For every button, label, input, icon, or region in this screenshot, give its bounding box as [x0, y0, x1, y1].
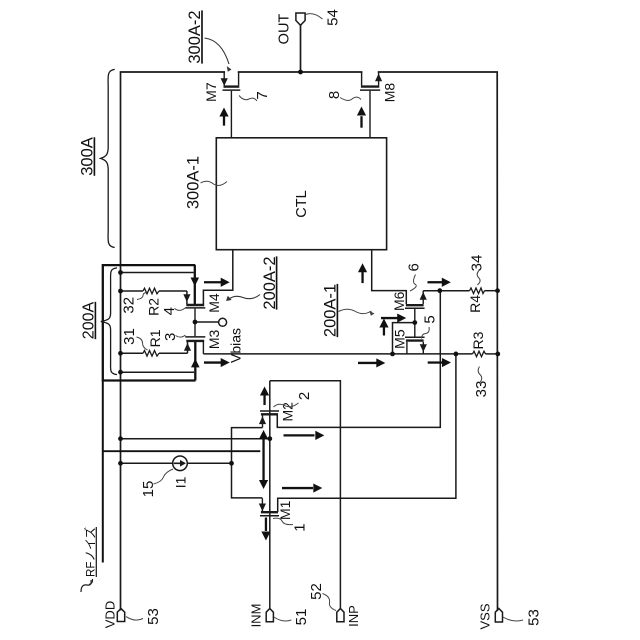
- terminal VDD 53: [102, 601, 161, 628]
- svg-text:INM: INM: [248, 604, 263, 628]
- wire M2 drain up to R4 node: [277, 291, 440, 427]
- svg-text:3: 3: [162, 333, 179, 341]
- arrowhead M4 bulk lead down: [191, 278, 200, 287]
- svg-text:15: 15: [140, 481, 157, 498]
- label 300A-1 with leader: [184, 156, 227, 209]
- CTL block U1: [216, 138, 386, 250]
- annotation arrow M7 gate up: [219, 108, 228, 126]
- node Vbias: [195, 318, 243, 363]
- wire M6 drain to R4 to VSS: [423, 290, 469, 292]
- wire CTL bottom-left lead to M4 drain: [203, 250, 232, 304]
- annotation arrow M1 drain right: [282, 487, 313, 489]
- resistor R4: [470, 288, 485, 294]
- transistor M1: [260, 498, 279, 515]
- transistor M5: [405, 323, 427, 355]
- label 1 with leader: [273, 518, 309, 532]
- svg-text:CTL: CTL: [294, 190, 310, 217]
- wire I1 branch: [121, 462, 232, 464]
- svg-text:1: 1: [292, 523, 309, 531]
- transistor M2: [260, 411, 279, 428]
- wire R2 branch: [121, 291, 187, 304]
- svg-text:R1: R1: [147, 329, 163, 347]
- label 31 with leader: [121, 328, 148, 350]
- wire M1 drain up to R3 node: [278, 354, 456, 512]
- resistor R2: [143, 288, 159, 294]
- annotation arrow INM down: [265, 518, 267, 532]
- svg-text:VDD: VDD: [102, 601, 117, 628]
- label 32 with leader: [121, 293, 147, 314]
- arrowhead M4 source lead down: [183, 294, 190, 302]
- svg-text:53: 53: [145, 608, 162, 625]
- label 33 with leader: [473, 367, 490, 398]
- arrowhead M3 source lead up: [184, 343, 191, 351]
- 200A bias box outline bold: [103, 265, 196, 562]
- resistor R3: [473, 351, 486, 357]
- label 300A-2 with leader: [186, 10, 231, 71]
- annotation arrow M5 source up: [383, 327, 385, 336]
- svg-text:54: 54: [324, 9, 341, 26]
- terminal INM 51: [248, 604, 309, 628]
- svg-text:R2: R2: [146, 298, 162, 316]
- svg-text:M3: M3: [206, 329, 222, 349]
- svg-text:53: 53: [525, 609, 542, 626]
- wire R1 branch: [121, 342, 188, 353]
- wire M5 gate diode connection: [393, 323, 415, 355]
- wire RF noise line: [103, 450, 260, 452]
- wire INM vertical through M1 M2 gates: [269, 381, 271, 609]
- annotation arrow M2 gate up: [263, 396, 265, 406]
- svg-text:INP: INP: [346, 605, 361, 627]
- wire INP up and over: [270, 381, 341, 609]
- svg-text:M6: M6: [391, 291, 407, 311]
- svg-text:I1: I1: [173, 476, 189, 488]
- annotation arrow mirror mid right: [358, 362, 377, 364]
- svg-text:Vbias: Vbias: [227, 328, 243, 363]
- arrowhead M2 source lead up: [259, 416, 266, 424]
- svg-text:RFノイズ: RFノイズ: [83, 527, 98, 577]
- svg-text:2: 2: [296, 392, 313, 400]
- label 2 with leader: [274, 392, 313, 407]
- annotation arrow tail double: [262, 436, 264, 483]
- transistor M8: [360, 72, 382, 138]
- label 8 with leader: [326, 91, 361, 101]
- label 300A with brace: [79, 69, 115, 247]
- arrowhead M1 source lead down: [259, 504, 266, 512]
- wire top rail middle segment M7-M8: [239, 71, 362, 73]
- annotation arrow before R3 right: [428, 361, 444, 363]
- svg-text:6: 6: [406, 263, 423, 271]
- M3 bulk lead bold: [194, 342, 196, 381]
- svg-text:OUT: OUT: [277, 14, 293, 45]
- M4 bulk lead bold: [194, 265, 196, 304]
- svg-text:R3: R3: [470, 331, 486, 349]
- svg-text:51: 51: [293, 609, 310, 626]
- wire main mirror net y354 from M3 drain to R3 to VSS: [203, 353, 472, 355]
- wire top rail VDD-side segment: [121, 72, 225, 610]
- label RF noise: [81, 527, 98, 592]
- svg-text:M8: M8: [382, 83, 398, 103]
- svg-text:M5: M5: [392, 329, 408, 349]
- wire VDD to gates tap y438.7: [121, 438, 270, 440]
- transistor M3: [185, 322, 205, 354]
- wire VDD tie upper: [121, 272, 194, 274]
- label 200A-2 with leader: [226, 256, 279, 309]
- annotation arrow M8 gate up: [360, 116, 362, 128]
- wire OUT stub: [300, 25, 302, 72]
- transistor M4: [185, 305, 205, 322]
- label 3 with leader: [162, 333, 185, 341]
- label 34 with leader: [469, 255, 486, 285]
- annotation arrow M4 out right: [204, 281, 221, 283]
- label 200A with brace: [81, 268, 117, 375]
- svg-text:300A: 300A: [79, 137, 97, 176]
- transistor M7: [221, 72, 241, 138]
- label 6 with leader: [406, 263, 423, 291]
- svg-text:M4: M4: [206, 293, 222, 313]
- terminal OUT 54: [277, 9, 342, 44]
- label 200A-1 with leader: [322, 284, 375, 337]
- annotation arrow M3 out right: [204, 361, 221, 363]
- terminal INP 52: [308, 583, 361, 627]
- wire VDD tie lower: [121, 371, 195, 373]
- wire CTL bottom-right lead to M6: [372, 250, 407, 304]
- svg-text:5: 5: [421, 315, 438, 323]
- resistor R1: [143, 351, 159, 357]
- svg-text:34: 34: [469, 255, 486, 272]
- current source I1: [173, 456, 188, 471]
- svg-text:300A-2: 300A-2: [186, 10, 204, 63]
- label 15 with leader: [140, 469, 173, 497]
- label 5 with leader: [421, 315, 438, 338]
- wire tail C-shape M1-M2 common source: [232, 428, 263, 498]
- svg-text:52: 52: [308, 583, 325, 600]
- label 4 with leader: [161, 307, 185, 315]
- annotation arrow CTL right up: [361, 272, 363, 284]
- annotation arrow M2 drain right: [284, 434, 315, 436]
- svg-text:VSS: VSS: [478, 603, 493, 629]
- svg-text:M7: M7: [203, 82, 219, 102]
- arrowhead M3 bulk lead up: [191, 359, 200, 368]
- terminal VSS 53: [478, 603, 543, 629]
- svg-text:4: 4: [161, 307, 178, 315]
- svg-text:33: 33: [473, 381, 490, 398]
- annotation arrow M6 out right: [428, 281, 443, 283]
- wire top rail VSS-side segment: [379, 72, 498, 610]
- svg-text:M1: M1: [277, 500, 293, 520]
- svg-text:200A-1: 200A-1: [322, 284, 340, 337]
- svg-text:7: 7: [254, 91, 271, 99]
- annotation arrow M5 source right: [381, 317, 398, 319]
- svg-text:31: 31: [121, 328, 138, 345]
- svg-text:200A: 200A: [81, 301, 98, 339]
- svg-text:32: 32: [121, 297, 138, 314]
- svg-text:R4: R4: [467, 295, 483, 313]
- svg-text:300A-1: 300A-1: [184, 156, 202, 209]
- svg-text:200A-2: 200A-2: [261, 256, 279, 309]
- label 7 with leader: [239, 91, 271, 101]
- transistor M6: [405, 291, 427, 323]
